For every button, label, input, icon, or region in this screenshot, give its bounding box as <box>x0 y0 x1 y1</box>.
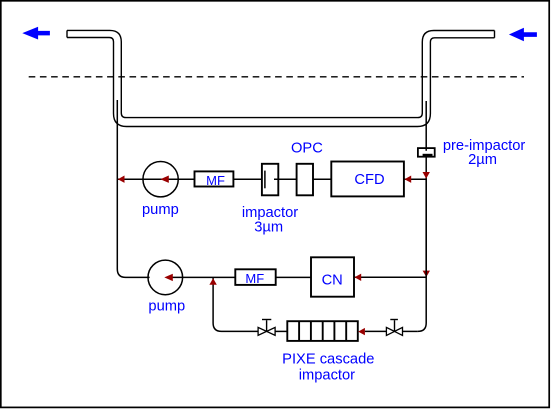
duct wall line B <box>67 38 495 127</box>
wire OPC to CFD <box>313 178 331 180</box>
PIXE stage divider 4 <box>333 321 335 341</box>
arrow into exhaust line (mid row) <box>118 176 125 183</box>
valve V1 left triangle <box>258 327 267 335</box>
wire exhaust line left <box>117 100 149 277</box>
wall dashed line <box>29 76 524 78</box>
CFD box <box>331 162 404 197</box>
wire sample line mid segment <box>425 179 427 277</box>
svg-text:pump: pump <box>148 299 185 315</box>
wire valve V1 to PIXE impactor <box>275 330 287 332</box>
valve V1 handle <box>262 319 271 321</box>
svg-text:OPC: OPC <box>291 140 323 156</box>
arrow inside pump P1 <box>160 176 169 183</box>
filter MF1 box <box>195 171 234 186</box>
blue outflow arrow left <box>22 27 50 40</box>
pump P1 circle <box>143 162 178 197</box>
impactor 3um body <box>262 164 278 196</box>
CN box <box>311 257 354 296</box>
pre-impactor plate <box>423 154 433 156</box>
arrow into CN <box>355 274 362 281</box>
filter MF2 box <box>235 269 275 285</box>
valve V2 right triangle <box>395 327 403 335</box>
valve V1 stem <box>266 320 268 331</box>
wire MF to impactor <box>233 178 262 180</box>
OPC box <box>297 164 313 196</box>
wire valve V2 to sample line <box>403 330 418 332</box>
svg-text:CFD: CFD <box>354 172 384 188</box>
arrow inside pump P2 <box>164 274 173 281</box>
arrow up PIXE branch <box>209 278 216 285</box>
wire MF2 to CN <box>276 276 311 278</box>
arrow into CFD <box>405 176 412 183</box>
wire CN to sample line <box>354 276 426 278</box>
svg-text:pump: pump <box>142 202 179 218</box>
svg-text:MF: MF <box>245 271 264 286</box>
wire PIXE impactor to valve V2 <box>365 330 387 332</box>
valve V1 right triangle <box>267 327 276 335</box>
wire CFD to sample line <box>404 178 426 180</box>
blue inflow arrow right <box>509 28 537 42</box>
svg-text:2µm: 2µm <box>468 152 497 168</box>
valve V2 handle <box>390 319 398 321</box>
arrow into PIXE impactor <box>358 328 365 335</box>
pump P2 circle <box>148 260 183 295</box>
PIXE cascade impactor body <box>287 321 358 341</box>
pre-impactor inlet stub <box>425 148 427 151</box>
wire sample line right <box>418 101 426 331</box>
pre-impactor body <box>418 148 435 157</box>
valve V2 stem <box>394 320 396 331</box>
svg-text:3µm: 3µm <box>254 220 283 236</box>
wire mid row left <box>117 178 194 180</box>
arrow down sample line lower <box>423 271 430 277</box>
svg-text:impactor: impactor <box>299 368 355 384</box>
duct left end cap <box>66 30 68 37</box>
wire PIXE branch down <box>213 277 258 331</box>
PIXE stage divider 3 <box>322 321 324 341</box>
wire lower row pump to MF2 <box>172 276 235 278</box>
valve V2 left triangle <box>386 327 394 335</box>
impactor 3um plate <box>264 171 266 189</box>
svg-text:CN: CN <box>322 273 343 289</box>
PIXE stage divider 1 <box>298 321 300 341</box>
duct right end cap <box>494 31 496 38</box>
PIXE stage divider 5 <box>345 321 347 341</box>
arrow down sample line upper <box>423 172 430 179</box>
duct wall line A <box>67 30 495 117</box>
wire impactor to OPC <box>274 178 297 180</box>
PIXE stage divider 2 <box>310 321 312 341</box>
svg-text:PIXE cascade: PIXE cascade <box>282 352 374 368</box>
svg-text:MF: MF <box>206 173 225 188</box>
